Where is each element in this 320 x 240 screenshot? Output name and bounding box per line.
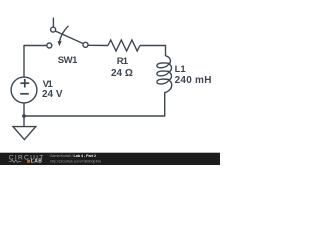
svg-text:SW1: SW1 <box>58 55 78 66</box>
wire <box>164 92 166 116</box>
wire <box>140 45 166 47</box>
svg-text:GamerKurfali / Lab 4 - Part 2: GamerKurfali / Lab 4 - Part 2 <box>50 154 96 158</box>
svg-text:24 Ω: 24 Ω <box>111 68 133 79</box>
CircuitLab logo watermark <box>9 155 45 165</box>
wire <box>23 103 25 116</box>
switch arrowhead <box>58 41 62 46</box>
svg-text:http://circuitlab.com/7dk9bdjr: http://circuitlab.com/7dk9bdjr48s <box>50 159 101 163</box>
svg-text:24 V: 24 V <box>42 89 63 100</box>
node junction <box>22 114 26 118</box>
svg-text:LAB: LAB <box>31 159 42 165</box>
svg-text:240 mH: 240 mH <box>175 75 212 86</box>
ground <box>23 116 25 127</box>
wire <box>23 115 165 117</box>
switch SW1 <box>52 18 54 28</box>
svg-text:L1: L1 <box>175 64 187 75</box>
inductor L1 <box>157 56 172 93</box>
wire <box>88 44 108 46</box>
wire <box>23 45 25 77</box>
watermark bar <box>0 153 220 165</box>
resistor R1 <box>108 40 140 51</box>
wire <box>165 45 167 56</box>
svg-text:R1: R1 <box>117 56 129 67</box>
wire <box>24 45 47 47</box>
voltage source V1 <box>11 77 37 103</box>
